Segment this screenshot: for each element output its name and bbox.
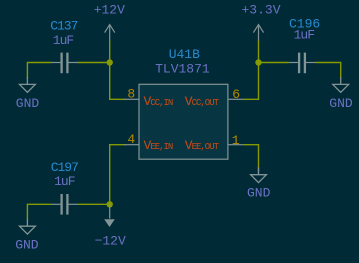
svg-text:+12V: +12V bbox=[94, 3, 125, 18]
svg-text:1uF: 1uF bbox=[294, 28, 315, 43]
svg-text:1uF: 1uF bbox=[54, 174, 75, 189]
svg-text:GND: GND bbox=[247, 185, 271, 200]
svg-text:8: 8 bbox=[127, 87, 134, 102]
svg-text:4: 4 bbox=[127, 132, 135, 147]
svg-text:TLV1871: TLV1871 bbox=[155, 61, 210, 76]
svg-text:C197: C197 bbox=[51, 160, 78, 175]
svg-text:1: 1 bbox=[232, 133, 240, 148]
svg-text:GND: GND bbox=[329, 96, 353, 111]
svg-text:GND: GND bbox=[16, 96, 40, 111]
svg-text:−12V: −12V bbox=[95, 234, 126, 249]
svg-text:6: 6 bbox=[232, 87, 239, 102]
svg-text:U41B: U41B bbox=[169, 47, 200, 62]
svg-text:+3.3V: +3.3V bbox=[241, 3, 280, 18]
svg-text:C137: C137 bbox=[50, 19, 77, 34]
svg-text:1uF: 1uF bbox=[53, 33, 74, 48]
svg-text:GND: GND bbox=[15, 238, 39, 253]
